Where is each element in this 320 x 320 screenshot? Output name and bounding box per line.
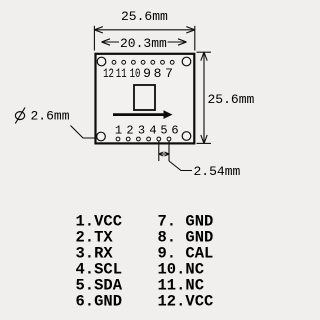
svg-text:2: 2 bbox=[126, 124, 133, 138]
svg-text:4: 4 bbox=[149, 124, 156, 138]
IC chip body U1 bbox=[134, 85, 155, 110]
svg-text:12: 12 bbox=[103, 66, 114, 81]
pin list row 1 right: 7. GND bbox=[158, 212, 214, 230]
pin list row 2 right: 8. GND bbox=[158, 228, 214, 246]
extension line right (top width dim) bbox=[194, 26, 196, 51]
leader line from 2.6mm label to bottom-left mounting hole bbox=[71, 126, 98, 139]
svg-text:3: 3 bbox=[138, 124, 145, 138]
mounting hole top-right bbox=[182, 57, 191, 66]
leader line from pitch dim to 2.54mm label bbox=[169, 161, 192, 171]
bottom pin holes row (pins 1-6) bbox=[116, 137, 171, 141]
dimension text 25.6mm (top) bbox=[121, 9, 168, 24]
svg-text:12.VCC: 12.VCC bbox=[158, 292, 214, 310]
dimension line 25.6mm top with arrowheads bbox=[94, 27, 194, 33]
mounting hole bottom-left bbox=[97, 132, 106, 141]
pin list row 5 right: 11.NC bbox=[158, 276, 205, 294]
svg-text:2.54mm: 2.54mm bbox=[194, 164, 241, 179]
dimension text 25.6mm (right) bbox=[208, 92, 255, 107]
extension line bottom (right height dim) bbox=[197, 142, 212, 144]
pin list row 5 left: 5.SDA bbox=[76, 276, 123, 294]
pin list row 6 left: 6.GND bbox=[76, 292, 123, 310]
dimension line 25.6mm right side with arrowheads bbox=[201, 52, 207, 143]
svg-text:2.6mm: 2.6mm bbox=[31, 109, 70, 124]
pin list row 1 left: 1.VCC bbox=[76, 212, 123, 230]
svg-text:5: 5 bbox=[160, 124, 167, 138]
svg-text:8: 8 bbox=[154, 66, 162, 81]
extension line left (top width dim) bbox=[93, 26, 95, 51]
module outline (PCB body 25.6mm square) bbox=[96, 54, 195, 144]
mounting hole top-left bbox=[97, 57, 106, 66]
pin list row 4 left: 4.SCL bbox=[76, 260, 123, 278]
pin list row 2 left: 2.TX bbox=[76, 228, 114, 246]
svg-text:20.3mm: 20.3mm bbox=[120, 36, 167, 51]
svg-text:6.GND: 6.GND bbox=[76, 292, 123, 310]
svg-text:6: 6 bbox=[171, 124, 178, 138]
extension line top (right height dim) bbox=[197, 51, 212, 53]
top pin holes row (pins 7-12) bbox=[112, 60, 174, 64]
bottom pin number labels 1 2 3 4 5 6 bbox=[115, 124, 179, 138]
mounting hole bottom-right bbox=[182, 132, 191, 141]
dimension line 2.54mm pitch with arrowheads bbox=[159, 152, 169, 156]
svg-text:25.6mm: 25.6mm bbox=[208, 92, 255, 107]
pin list row 4 right: 10.NC bbox=[158, 260, 205, 278]
extension line pin6 (pitch dim) bbox=[168, 141, 170, 161]
pin list row 3 left: 3.RX bbox=[76, 244, 114, 262]
extension line pin5 (pitch dim) bbox=[158, 141, 160, 161]
svg-text:7: 7 bbox=[165, 66, 173, 81]
svg-text:11: 11 bbox=[116, 66, 127, 81]
hole diameter symbol phi 2.6mm bbox=[15, 108, 69, 124]
dimension text 2.54mm bbox=[194, 164, 241, 179]
dimension line 20.3mm with inline text and arrowheads bbox=[102, 36, 187, 51]
svg-text:10: 10 bbox=[130, 66, 141, 81]
svg-text:9: 9 bbox=[143, 66, 151, 81]
pin list row 3 right: 9. CAL bbox=[158, 244, 214, 262]
svg-text:25.6mm: 25.6mm bbox=[121, 9, 168, 24]
top pin number labels 12 11 10 9 8 7 bbox=[103, 66, 173, 81]
orientation arrow bbox=[113, 110, 173, 119]
pin list row 6 right: 12.VCC bbox=[158, 292, 214, 310]
svg-text:1: 1 bbox=[115, 124, 122, 138]
